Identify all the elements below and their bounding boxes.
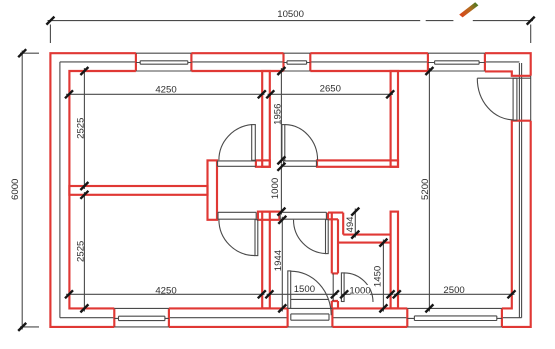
svg-text:1500: 1500 [294, 284, 315, 295]
tick 4250b left [65, 290, 73, 298]
wall: exterior inner face, top segments [191, 70, 428, 72]
window W2 glazing [284, 53, 311, 71]
svg-text:1000: 1000 [270, 178, 281, 199]
window W3 jambs [428, 53, 485, 71]
window W4 glazing [114, 308, 169, 327]
tick 1956 top [277, 67, 285, 75]
dim 6000 extension lines [20, 53, 39, 327]
tick 5200 top [425, 67, 433, 75]
wall: hall top, right piece [317, 160, 398, 166]
door D-V swing arc [293, 220, 325, 254]
window W1 jambs [136, 53, 192, 71]
wall: WC top [338, 235, 391, 243]
tick 1956 bottom [277, 156, 285, 164]
wall: exterior outer face, left side + corners [50, 53, 135, 327]
tick 4250b right [258, 290, 266, 298]
tick 2650 left [266, 90, 274, 98]
wall: exterior inner face, right below D1 + bottom jamb [502, 121, 531, 309]
door D-TM swing arc [285, 125, 318, 161]
dim 10500 extension lines [50, 25, 530, 44]
tick 1944 top [278, 216, 286, 224]
svg-text:1956: 1956 [273, 104, 284, 125]
tick 2500 right [508, 290, 516, 298]
tick 2525t top [80, 67, 88, 75]
svg-text:6000: 6000 [10, 179, 21, 200]
door D2 jambs [288, 308, 333, 327]
door D-WC face lines [332, 273, 334, 301]
svg-text:4250: 4250 [155, 285, 176, 296]
wall: WC left lower stub [332, 301, 338, 308]
tick 2525b top [80, 191, 88, 199]
wall: interior wall A [69, 186, 207, 195]
dim line 2500 [394, 293, 515, 295]
pencil icon on 10500 line [459, 2, 478, 17]
dim line 1944 [281, 217, 283, 312]
dim line 2525 bottom [83, 192, 85, 312]
dim line 10500 with icon gap [48, 20, 534, 22]
door D1 lintel line [477, 77, 530, 79]
tick 2500 left [393, 290, 401, 298]
dim line 1450 [382, 240, 384, 312]
svg-text:1000: 1000 [349, 285, 370, 296]
white box under 1000wc label [351, 285, 371, 295]
door D-V leaf [326, 220, 329, 254]
dim line 1500 [267, 293, 338, 295]
wall: partition P4 WC right [391, 212, 398, 309]
dim line 4250 bottom [66, 293, 265, 295]
dim line 6000 [21, 51, 23, 330]
tick 1450 bottom [379, 304, 387, 312]
tick 1450 top [379, 239, 387, 247]
door D-V threshold [280, 212, 326, 219]
tick 1000wc right [387, 290, 395, 298]
door D1 leaf [513, 78, 517, 120]
svg-text:2525: 2525 [76, 118, 87, 139]
window W3 glazing [428, 53, 485, 71]
wall centerline left [59, 62, 61, 318]
svg-text:1450: 1450 [372, 266, 383, 287]
tick 494 top [351, 208, 359, 216]
wall centerline top [60, 61, 520, 63]
svg-text:2500: 2500 [443, 285, 464, 296]
door D2 swing arc [291, 271, 331, 315]
wall: hall bottom, right piece [328, 213, 343, 220]
dim line 2650 [268, 93, 394, 95]
wall: WC left upper [332, 213, 338, 274]
svg-text:2650: 2650 [320, 84, 341, 95]
door D2 face lines across opening [288, 308, 333, 327]
tick 2525t bottom [80, 182, 88, 190]
tick 4250t left [65, 90, 73, 98]
wall centerline bottom [60, 317, 522, 319]
dim line 1956 [280, 68, 282, 164]
wall: hall left (wall B) [208, 160, 218, 219]
door D-BL threshold [218, 212, 256, 219]
svg-text:2525: 2525 [76, 241, 87, 262]
wall: partition P1 between top rooms [262, 71, 270, 167]
wall: exterior outer face, bottom segments [169, 326, 407, 328]
door D-TM leaf [282, 125, 285, 161]
door D2 sill [291, 299, 329, 320]
svg-text:5200: 5200 [420, 179, 431, 200]
wall: hall bottom, left piece [258, 212, 280, 220]
wall: exterior inner face, top-right with step to door D1 [485, 71, 531, 75]
window W1 glazing [136, 53, 192, 71]
svg-text:1944: 1944 [273, 249, 284, 271]
door D-TL threshold [218, 161, 256, 166]
wall: hall top, left piece with stub [256, 160, 270, 166]
dim line 2525 top [83, 68, 85, 189]
tick 6000 bottom [18, 323, 26, 331]
wall: exterior outer face, top-right corner down to door D1 [485, 53, 531, 76]
wall: partition P3 below hall [262, 212, 270, 309]
wall: exterior inner face, top-left + left + bottom-left [69, 71, 135, 308]
window W2 jambs [284, 53, 311, 71]
door D1 outer face line [530, 76, 532, 121]
tick 1500 right [331, 290, 339, 298]
wall: partition P2 between middle and right rooms [391, 71, 398, 167]
tick 10500 right [527, 17, 535, 25]
tick 1000h top [277, 163, 285, 171]
wall: exterior inner face, bottom segments [169, 307, 407, 309]
door D-WC swing arc [344, 273, 373, 302]
dim line 494 [354, 209, 356, 238]
dim line 5200 [428, 68, 430, 312]
dim line 1000 hall [280, 164, 282, 215]
door D-BL leaf [255, 220, 258, 256]
tick 2525b bottom [80, 304, 88, 312]
tick 1000wc left [340, 290, 348, 298]
tick 1944 bottom [278, 304, 286, 312]
door D-BL swing arc [219, 220, 255, 256]
door D-TM threshold [284, 161, 317, 166]
tick 1000h bottom [277, 208, 285, 216]
wall: exterior outer face, right below door D1 + bottom-right corner [502, 121, 531, 327]
door D2 leaf [288, 271, 291, 309]
tick 1500 left [265, 290, 273, 298]
tick 494 bottom [351, 231, 359, 239]
tick 10500 left [46, 17, 54, 25]
door D-TL swing arc [219, 125, 252, 161]
svg-text:10500: 10500 [277, 9, 304, 20]
tick 5200 bottom [425, 304, 433, 312]
wall: stub at vestibule NE [342, 213, 344, 235]
svg-text:494: 494 [345, 216, 356, 233]
door D1 swing arc [477, 78, 513, 120]
dim line 1000 wc [342, 293, 394, 295]
window W5 jambs [407, 308, 502, 327]
tick 2650 right [386, 90, 394, 98]
tick 4250t right [258, 90, 266, 98]
tick 6000 top [18, 49, 26, 57]
window W4 jambs [114, 308, 169, 327]
window W5 glazing [407, 308, 502, 327]
door D-WC leaf [341, 273, 344, 302]
svg-text:4250: 4250 [155, 84, 176, 95]
dim line 4250 top [66, 93, 265, 95]
wall centerline right (double) [519, 63, 521, 318]
wall: exterior outer face, top segments [191, 52, 428, 54]
door D-TL leaf [252, 125, 256, 161]
